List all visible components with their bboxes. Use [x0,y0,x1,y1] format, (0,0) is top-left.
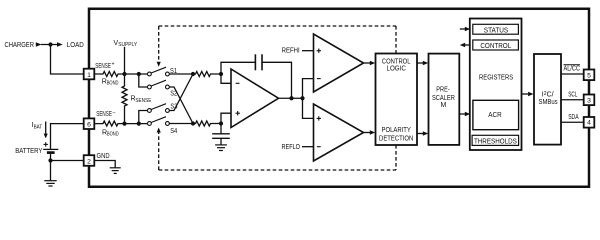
wire battery to ground node [50,154,52,161]
node plus input junction [219,121,223,125]
battery B1 [43,148,58,150]
svg-text:AL/CC: AL/CC [564,66,581,73]
wire AL/CC [561,73,584,75]
svg-text:–: – [113,110,116,116]
wire battery to pin 6 [51,124,84,149]
svg-text:STATUS: STATUS [484,27,509,34]
svg-text:CHARGER: CHARGER [5,42,35,49]
wire SDA [561,121,584,123]
node S2 branch junction [137,72,141,76]
block prescaler M [429,54,460,145]
pin 1 box [84,69,95,80]
wire control output arrow [465,44,470,46]
IC package outline [89,9,589,187]
svg-text:SMBus: SMBus [539,99,559,106]
wire to comparator 2 plus [303,98,314,118]
node VSUPPLY/RSENSE junction [122,72,126,76]
node charger/load junction [48,42,52,46]
switch S2 [148,85,152,89]
resistor (top input) [193,72,221,77]
svg-text:ACR: ACR [488,112,501,119]
wire to comparator 1 minus [303,79,314,99]
resistor RBOND (top) [94,72,147,77]
wire S3 cross to top node [169,74,193,111]
wire status input arrow [460,28,465,30]
ground (battery) [44,181,56,186]
block I2C/SMBus [534,54,561,145]
wire minus input [221,74,231,83]
svg-text:6: 6 [87,122,91,129]
node feedback junction [289,96,293,100]
block registers [470,19,522,151]
wire junction to pin 2 [51,160,84,162]
resistor RSENSE [122,74,127,124]
overline AL/CC [564,64,581,66]
switch S4 [148,122,152,126]
resistor RBOND (bottom) [94,121,147,126]
register control box [473,40,519,50]
pin 5 box [584,70,595,81]
wire REFLO [302,146,313,148]
node battery/gnd junction [48,158,52,162]
wire comparator1 to control logic [364,62,371,64]
svg-text:2: 2 [87,158,91,165]
svg-text:LOAD: LOAD [67,42,84,49]
comparator U2 (high) [314,34,364,92]
dashed chopper boundary [159,26,396,170]
node S3 branch junction [137,122,141,126]
svg-text:BAT: BAT [34,124,43,130]
svg-text:CONTROL: CONTROL [480,43,511,50]
node RSENSE bottom junction [122,122,126,126]
svg-text:LOGIC: LOGIC [387,66,406,73]
pin 3 box [584,95,595,106]
svg-text:REFLO: REFLO [282,144,301,151]
wire pin 2 to internal ground [94,161,115,168]
svg-text:SCL: SCL [568,92,577,99]
svg-text:1: 1 [87,72,91,79]
switch S3 [148,109,152,113]
ground (integrator input) [215,145,227,151]
svg-text:+: + [112,62,115,68]
svg-text:SDA: SDA [568,114,579,121]
svg-text:S2: S2 [170,90,177,97]
wire S2 cross to bottom node [169,87,193,124]
svg-text:BOND: BOND [107,81,119,87]
wire control logic to prescaler [417,62,423,64]
wire S3 branch [139,111,148,124]
ground (GND pin) [110,168,121,174]
wire S4 to bottom node [169,123,193,125]
svg-text:I2C/: I2C/ [542,91,554,99]
label battery plus [44,142,48,146]
wire SCL [561,99,584,101]
node comparator branch junction [300,96,304,100]
wire S1 to top node [169,73,193,75]
wire REFHI [302,50,313,52]
register status box [473,24,519,34]
wire prescaler to registers [459,113,465,115]
register ACR box [473,100,519,129]
pin 2 box [84,155,95,166]
wire plus input [221,113,231,123]
svg-text:PRE-: PRE- [436,86,450,93]
wire comparator2 to polarity detection [364,132,371,134]
svg-text:SUPPLY: SUPPLY [118,42,138,48]
register thresholds box [472,135,518,145]
node feedback/minus junction [219,72,223,76]
wire junction down to ground [50,161,52,181]
pin 6 box [84,118,95,129]
wire charger to load node [41,44,57,46]
IBAT current arrow [45,122,47,135]
svg-text:5: 5 [587,72,591,79]
capacitor C1 (integrator feedback) [254,54,256,70]
svg-text:SENSE: SENSE [95,63,111,70]
wire VSUPPLY [124,47,126,74]
dashed arrow to S4 [157,128,161,133]
op-amp U1 integrator [231,69,279,128]
svg-text:SENSE: SENSE [96,111,112,118]
wire junction down to SENSE+ [51,45,84,75]
svg-text:S1: S1 [170,68,177,75]
arrow load [57,42,63,47]
node integrator plus input net [191,121,195,125]
switch S1 [148,72,152,76]
svg-text:S4: S4 [170,128,177,135]
dashed arrow to S1 [157,62,161,67]
wire S2 branch [139,74,148,87]
wire registers to I2C [522,93,529,95]
capacitor C2 (plus input to ground) [220,124,222,134]
resistor (bottom input) [193,121,221,126]
svg-text:REGISTERS: REGISTERS [479,74,513,81]
svg-text:4: 4 [587,120,591,127]
svg-text:GND: GND [97,153,110,160]
svg-text:REFHI: REFHI [282,48,300,55]
wire polarity detection to prescaler [417,133,423,135]
svg-text:DETECTION: DETECTION [379,135,413,142]
svg-text:S3: S3 [170,103,177,110]
wire feedback right [262,62,292,98]
block control logic / polarity detection [376,54,418,146]
pin 4 box [584,117,595,128]
svg-text:THRESHOLDS: THRESHOLDS [474,138,517,145]
svg-text:BATTERY: BATTERY [15,148,42,155]
svg-text:M: M [440,102,446,109]
comparator U3 (low) [314,104,364,161]
svg-text:3: 3 [587,98,591,105]
wire op-amp output [279,97,303,99]
svg-text:POLARITY: POLARITY [382,127,412,134]
svg-text:BOND: BOND [107,132,119,138]
arrow charger [36,42,42,47]
svg-text:SENSE: SENSE [135,98,151,104]
node integrator minus input net [191,72,195,76]
wire feedback left [221,62,255,74]
svg-text:CONTROL: CONTROL [382,59,411,66]
